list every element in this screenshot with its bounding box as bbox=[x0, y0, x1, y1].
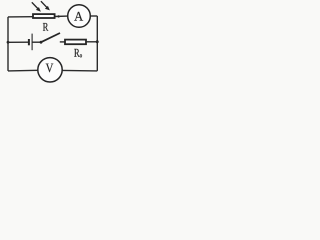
battery cell: long thin plate bbox=[31, 34, 33, 51]
wire: left vertical bbox=[7, 17, 9, 71]
wire: R0 to right node bbox=[86, 41, 97, 43]
wire: top-left horizontal segment bbox=[8, 16, 33, 18]
node: junction dot right (middle branch) bbox=[96, 40, 99, 43]
wire: left node to battery bbox=[8, 41, 28, 43]
wire: between R and ammeter bbox=[55, 15, 68, 17]
node: junction dot left (middle branch) bbox=[7, 41, 10, 44]
wire: ammeter to top-right corner bbox=[90, 15, 97, 17]
wire: bottom right horizontal bbox=[62, 69, 97, 72]
photoresistor R (body) bbox=[33, 14, 55, 18]
wire: right vertical bbox=[96, 16, 98, 71]
resistor R0 (body) bbox=[65, 40, 86, 45]
label R (photoresistor) bbox=[43, 23, 48, 31]
label R0 bbox=[74, 49, 79, 57]
switch blade (open) bbox=[41, 33, 60, 42]
label V (voltmeter) bbox=[46, 64, 54, 73]
ammeter A (meter circle) bbox=[68, 5, 91, 28]
voltmeter V (meter circle) bbox=[38, 58, 62, 82]
light arrow 2 bbox=[41, 1, 50, 10]
wire: battery to switch bbox=[32, 41, 41, 43]
label A (ammeter) bbox=[74, 12, 83, 21]
node: ammeter left terminal dot bbox=[57, 15, 59, 17]
light arrow 1 bbox=[32, 2, 41, 11]
switch pivot dot bbox=[40, 41, 43, 44]
wire: switch to resistor R0 bbox=[60, 41, 65, 43]
battery cell: short thick plate bbox=[28, 39, 30, 45]
wire: bottom left horizontal bbox=[8, 69, 38, 72]
